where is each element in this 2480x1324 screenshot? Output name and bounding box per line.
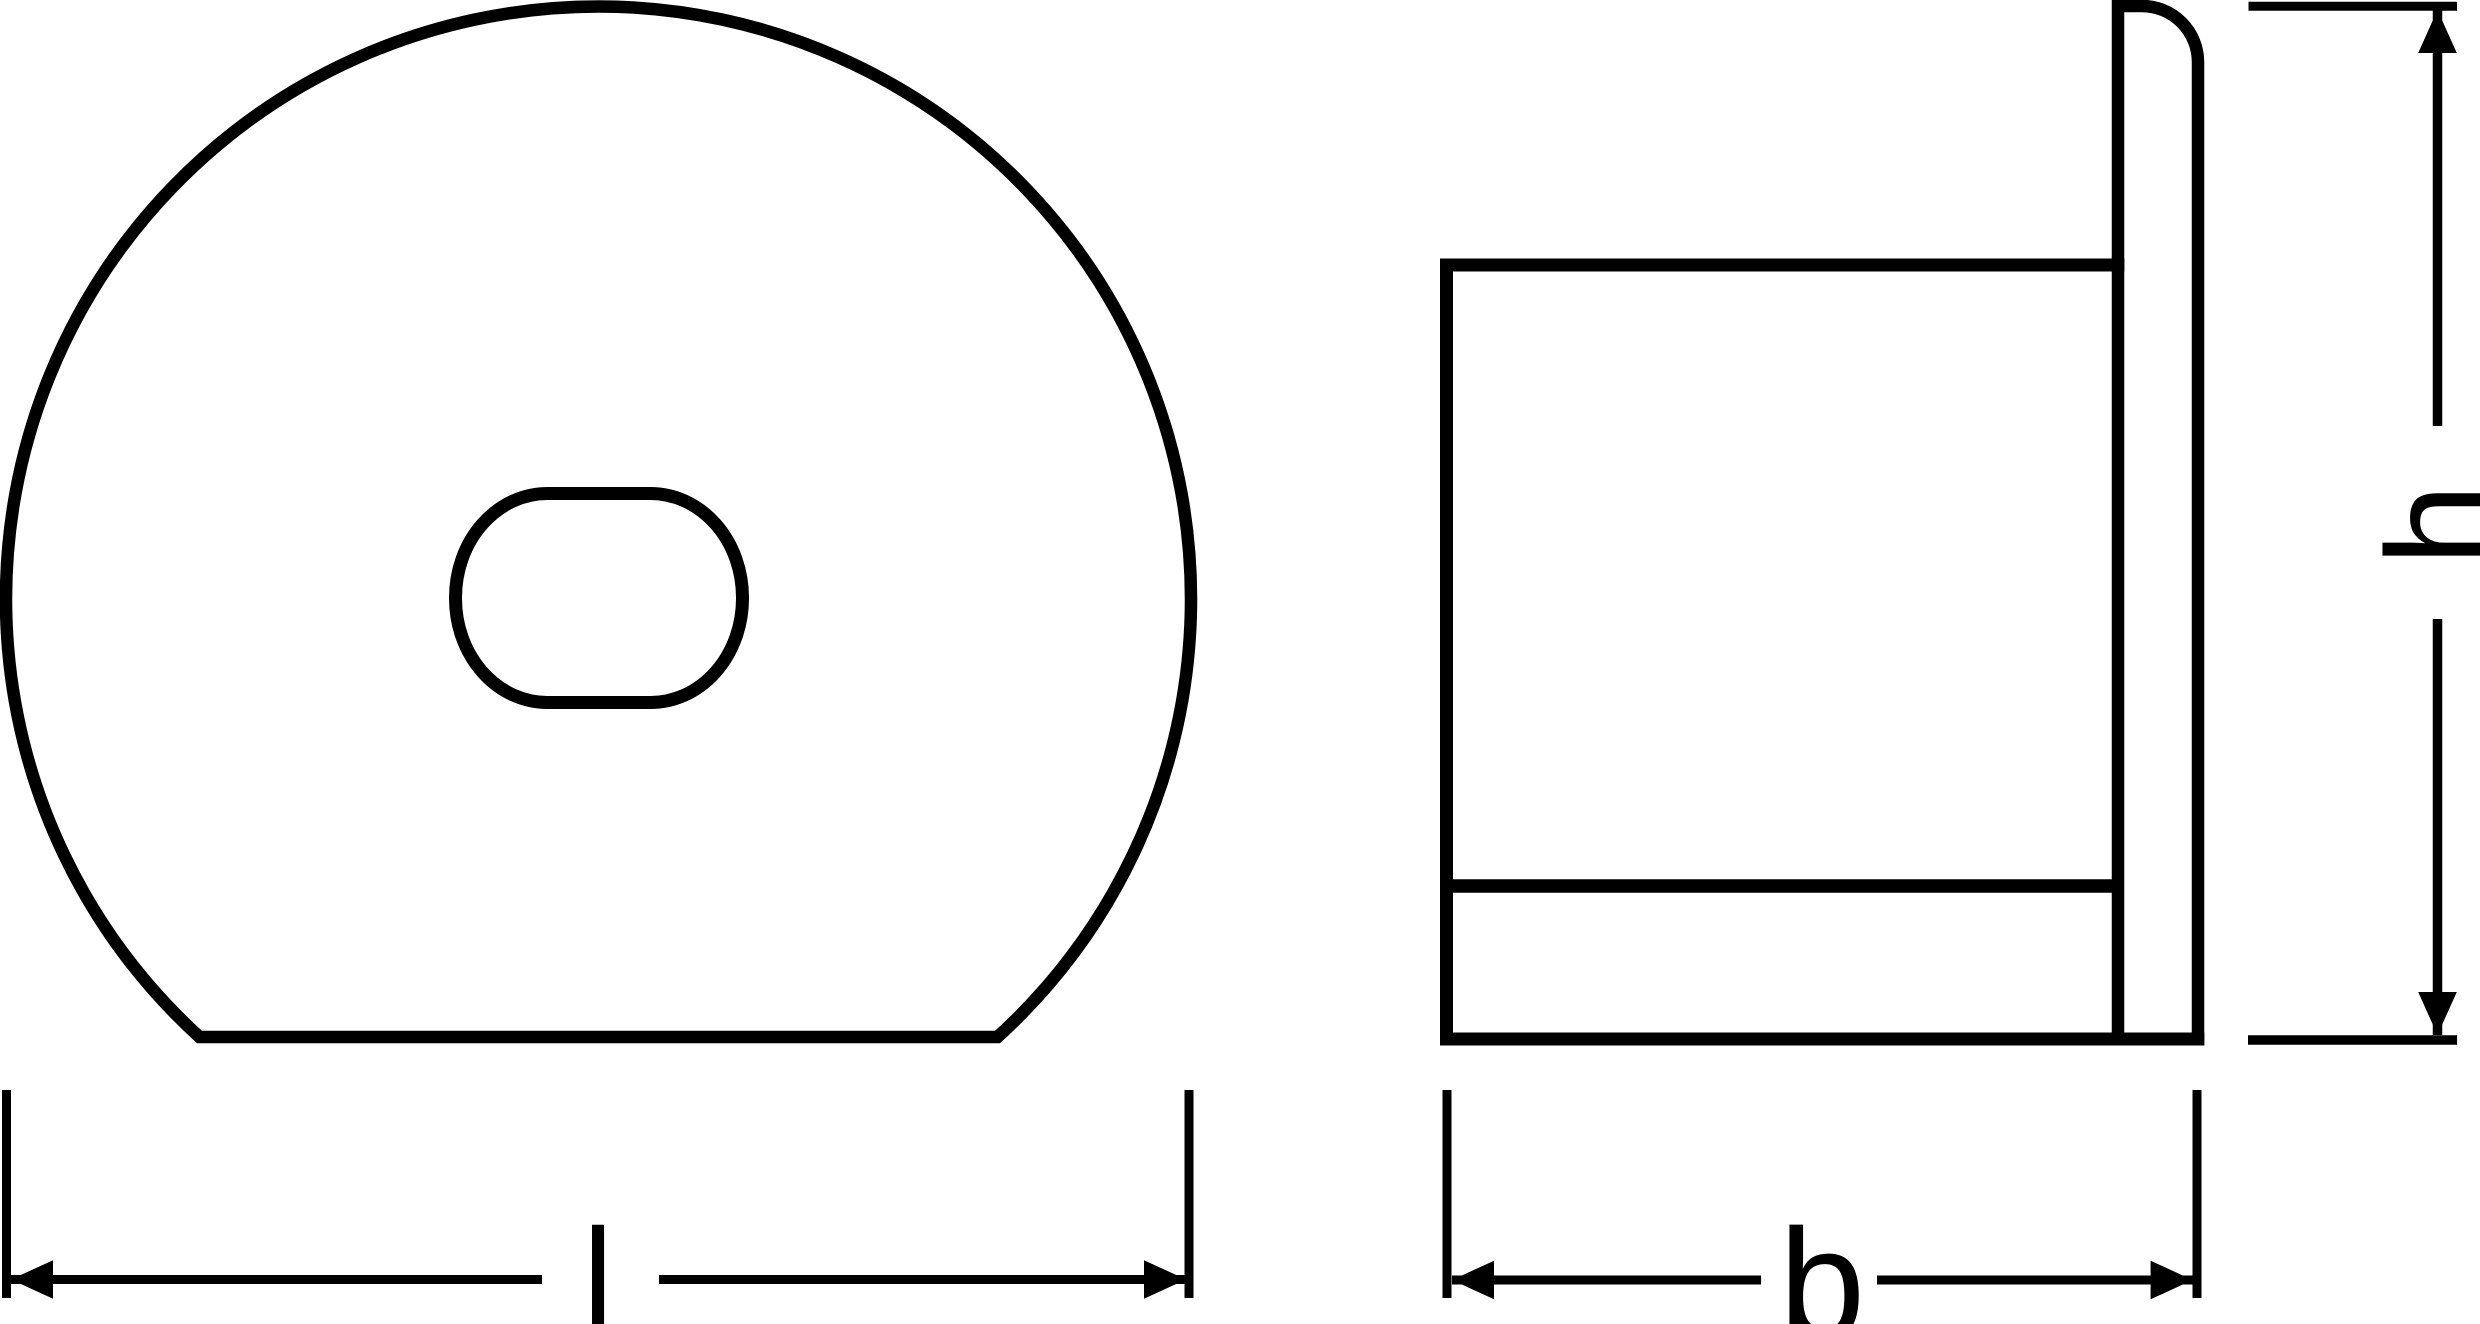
- dimension b: left extension tick: [1443, 1090, 1452, 1298]
- dimension h: bottom extension tick: [2248, 1035, 2457, 1045]
- dimension b: right arrowhead: [2151, 1261, 2193, 1300]
- dimension h: line top segment: [2433, 10, 2443, 426]
- dimension l: right extension tick: [1185, 1090, 1194, 1298]
- dimension b: right extension tick: [2193, 1090, 2202, 1298]
- dimension l: line left segment: [11, 1275, 542, 1284]
- dimension h: top arrowhead: [2418, 10, 2457, 53]
- side view: body left and top edges: [1447, 265, 2125, 1039]
- dimension b: left arrowhead: [1452, 1261, 1494, 1300]
- dimension h: line bottom segment: [2433, 619, 2443, 1035]
- dimension l: right arrowhead: [1144, 1260, 1186, 1299]
- svg-text:h: h: [2357, 484, 2480, 566]
- side view: bottom edge: [1440, 1033, 2204, 1046]
- front view: oval slot hole: [456, 494, 743, 703]
- svg-text:b: b: [1779, 1197, 1865, 1324]
- dimension b: line right segment: [1877, 1276, 2193, 1285]
- dimension h: bottom arrowhead: [2418, 992, 2457, 1035]
- svg-text:l: l: [583, 1201, 613, 1324]
- dimension l: left arrowhead: [11, 1260, 53, 1299]
- dimension b: line left segment: [1452, 1276, 1761, 1285]
- side view: inner horizontal line: [1441, 879, 2118, 893]
- front view: truncated circle outline: [6, 6, 1191, 1037]
- dimension l: line right segment: [659, 1275, 1186, 1284]
- dimension l: left extension tick: [2, 1090, 11, 1298]
- side view: flange outline: [2118, 6, 2198, 1040]
- dimension h: top extension tick: [2249, 2, 2458, 11]
